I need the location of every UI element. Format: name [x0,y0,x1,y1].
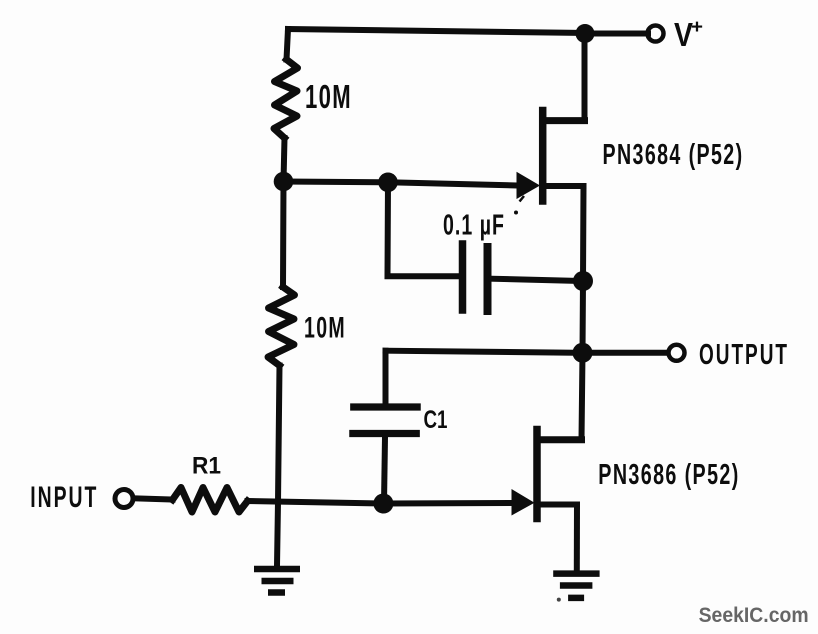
wire gate bus Q1 (node A to gate arrow) [284,182,520,186]
transistor Q2 source tap [540,502,577,508]
resistor 10M R2 upper [274,60,298,139]
transistor Q1 gate arrowhead [517,172,541,199]
transistor Q1 drain tap [545,117,585,124]
wire left rail middle (node A to resistor) [280,182,287,288]
wire output node to terminal [592,350,667,356]
svg-text:0.1 µF: 0.1 µF [443,209,505,241]
wire top rail [288,29,585,33]
junction dot V+ rail [576,24,595,43]
capacitor C1 bottom plate [353,430,416,437]
wire C1 upper leg [383,351,389,404]
speck near ground GND2 [557,598,561,602]
wire C1 lower leg [384,437,385,504]
svg-text:C1: C1 [424,406,448,434]
wire right rail (Q1 source down through nodes to Q2 drain corner) [582,186,584,440]
junction node D (input line / C1) [373,494,393,514]
junction node OUTPUT [573,343,593,363]
wire resistor to node A [284,138,285,182]
wire output branch (C1 corner to output node) [386,351,584,353]
wire left rail lower (resistor to ground) [277,366,280,567]
terminal INPUT [115,490,133,508]
speck near 0.1uF [520,196,525,202]
transistor Q2 PN3686 channel bar [533,430,541,519]
capacitor 0.1uF left plate [459,244,467,310]
svg-text:OUTPUT: OUTPUT [699,339,789,371]
capacitor C1 top plate [354,403,417,410]
svg-text:INPUT: INPUT [30,481,98,514]
capacitor 0.1uF right plate [484,247,492,311]
transistor Q1 PN3684 channel bar [539,111,547,202]
wire 0.1uF right leg [492,279,584,281]
junction node A (left rail / gate bus) [274,172,294,192]
svg-text:+: + [691,17,703,38]
wire input line after R1 to Q2 gate arrow [248,501,514,504]
junction node B (gate bus / 0.1uF leg) [378,173,398,193]
wire Q2 source to ground [574,505,580,571]
transistor Q2 gate arrowhead [512,489,535,516]
svg-text:PN3686 (P52): PN3686 (P52) [598,458,739,490]
ground GND1 (left) [254,569,300,593]
terminal V+ [648,26,664,42]
junction node C (0.1uF right / right rail) [573,271,593,291]
resistor R1 [173,488,248,513]
transistor Q1 source tap [545,183,584,189]
wire Q1 drain to top rail [582,34,588,121]
svg-text:10M: 10M [304,312,346,345]
ground GND2 (right) [553,574,599,598]
wire left rail upper (top corner to resistor) [287,29,289,60]
transistor Q2 PN3686 drain tap [540,436,582,443]
wire V+ lead [592,31,648,37]
wire 0.1uF left leg [388,182,460,276]
terminal OUTPUT [669,345,685,361]
svg-text:PN3684 (P52): PN3684 (P52) [603,138,744,170]
svg-text:R1: R1 [192,453,221,480]
wire input line [136,498,173,499]
svg-text:10M: 10M [305,78,352,115]
svg-text:SeekIC.com: SeekIC.com [699,604,809,627]
resistor 10M R3 lower [268,287,295,366]
